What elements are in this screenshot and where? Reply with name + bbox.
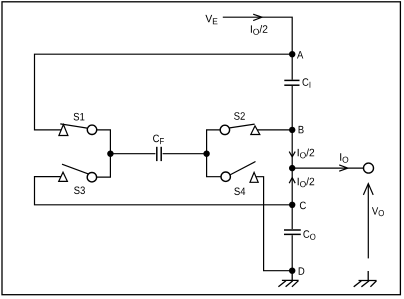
label C <box>300 202 306 210</box>
wire node A to capacitor CI <box>291 54 293 79</box>
label B <box>299 126 304 133</box>
current arrow IO/2 downward <box>289 152 295 157</box>
label CO <box>303 230 315 240</box>
node A <box>289 51 295 57</box>
wire S4 to node D <box>256 177 292 271</box>
capacitor CF <box>110 147 206 161</box>
label VO <box>372 207 384 216</box>
voltage arrow VO <box>363 184 373 259</box>
label A <box>297 51 303 58</box>
wire right junction to S2 <box>207 130 220 154</box>
current arrow IO <box>339 165 348 171</box>
wire top rail node A to S1 <box>35 54 293 130</box>
capacitor CO <box>284 230 301 234</box>
node C <box>289 202 295 208</box>
wire VE input to node A <box>223 17 292 54</box>
output terminal <box>364 163 374 173</box>
wire capacitor CO to node D <box>291 235 293 271</box>
switch S3 <box>59 164 97 182</box>
label S3 <box>74 187 85 195</box>
ground for VO <box>354 271 377 287</box>
wire S2 to node B <box>258 129 293 131</box>
label IO/2 middle lower <box>298 177 315 187</box>
wire output junction to output terminal <box>292 167 363 169</box>
wire S3 left rail to node C <box>35 177 293 205</box>
wire right junction to S4 <box>207 154 221 177</box>
label D <box>299 267 305 274</box>
junction dot right <box>203 151 209 157</box>
label S4 <box>234 188 245 196</box>
wire capacitor CI to node B <box>291 86 293 130</box>
node D <box>289 268 295 274</box>
label CF <box>153 135 164 145</box>
wire left junction to S3 <box>97 154 111 177</box>
wire S1 output to left junction <box>97 130 111 154</box>
current arrow IO/2 upward <box>289 178 295 184</box>
switch S2 <box>220 124 260 134</box>
ground at node D <box>278 271 298 287</box>
switch S4 <box>221 162 258 183</box>
label IO/2 middle upper <box>298 149 315 159</box>
output junction node <box>289 165 295 171</box>
junction dot left <box>107 151 113 157</box>
wire node B to output junction <box>291 130 293 168</box>
wire node C to capacitor CO <box>291 205 293 229</box>
label S2 <box>234 112 245 120</box>
capacitor CI <box>284 80 299 85</box>
label IO <box>340 153 348 163</box>
label CI <box>303 78 311 88</box>
node B <box>289 127 295 133</box>
wire output junction to node C <box>291 168 293 205</box>
current arrow IO/2 top <box>253 14 262 20</box>
net label VE <box>205 15 217 24</box>
label S1 <box>74 113 85 121</box>
switch S1 <box>59 124 97 136</box>
label IO/2 top <box>251 25 268 35</box>
